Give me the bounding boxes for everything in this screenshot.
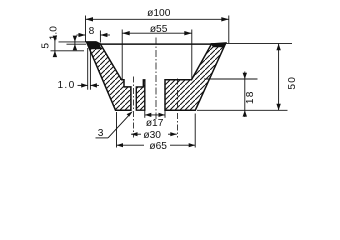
dimension ø100: [86, 8, 229, 43]
svg-text:ø30: ø30: [143, 130, 161, 141]
svg-text:5: 5: [40, 43, 51, 49]
dimension ø30 (bolt circle): [131, 130, 177, 141]
dimension ø17 (bore): [145, 110, 165, 129]
dimension 1.0 (land width, lower left): [57, 80, 99, 91]
dimension 1.0 (edge step, rotated): [49, 26, 78, 51]
tip detail extension line (land bottom): [51, 50, 85, 52]
svg-text:18: 18: [245, 90, 256, 104]
wheel right wall section (hatched): [165, 43, 226, 110]
bolt-circle centerline right / ø30 right extension: [177, 79, 179, 138]
svg-text:ø55: ø55: [150, 24, 168, 35]
screw hole centerline / ø30 left extension: [132, 77, 134, 138]
dimension 5 (edge depth, rotated): [40, 36, 57, 58]
tip detail extension line (face level): [67, 43, 87, 45]
top face line: [96, 43, 212, 45]
svg-text:1.0: 1.0: [49, 26, 60, 40]
dimension ø55: [122, 24, 192, 80]
tip detail extension line (land top): [59, 41, 88, 43]
svg-text:8: 8: [89, 26, 95, 37]
label 3 (screw holes) with leader: [96, 111, 133, 139]
svg-text:ø65: ø65: [149, 141, 167, 152]
land projection lines (1.0 wide): [87, 48, 89, 90]
dimension 8 (rim width): [77, 26, 111, 43]
right rim tip (solid): [211, 43, 227, 47]
main axis centerline: [155, 38, 157, 120]
wheel left wall section (hatched): [87, 42, 131, 110]
left rim tip (solid): [86, 42, 102, 50]
svg-text:ø100: ø100: [147, 8, 171, 19]
svg-text:50: 50: [287, 76, 298, 90]
dimension 18 (floor to base, rotated): [204, 72, 258, 118]
dimension ø65 (base): [117, 112, 196, 152]
svg-text:ø17: ø17: [146, 118, 164, 129]
svg-text:1.0: 1.0: [57, 80, 75, 91]
svg-text:3: 3: [98, 128, 104, 139]
dimension 50 (overall height, rotated): [197, 43, 298, 110]
wheel hub sliver between screw slot and bore (hatched): [136, 80, 145, 110]
